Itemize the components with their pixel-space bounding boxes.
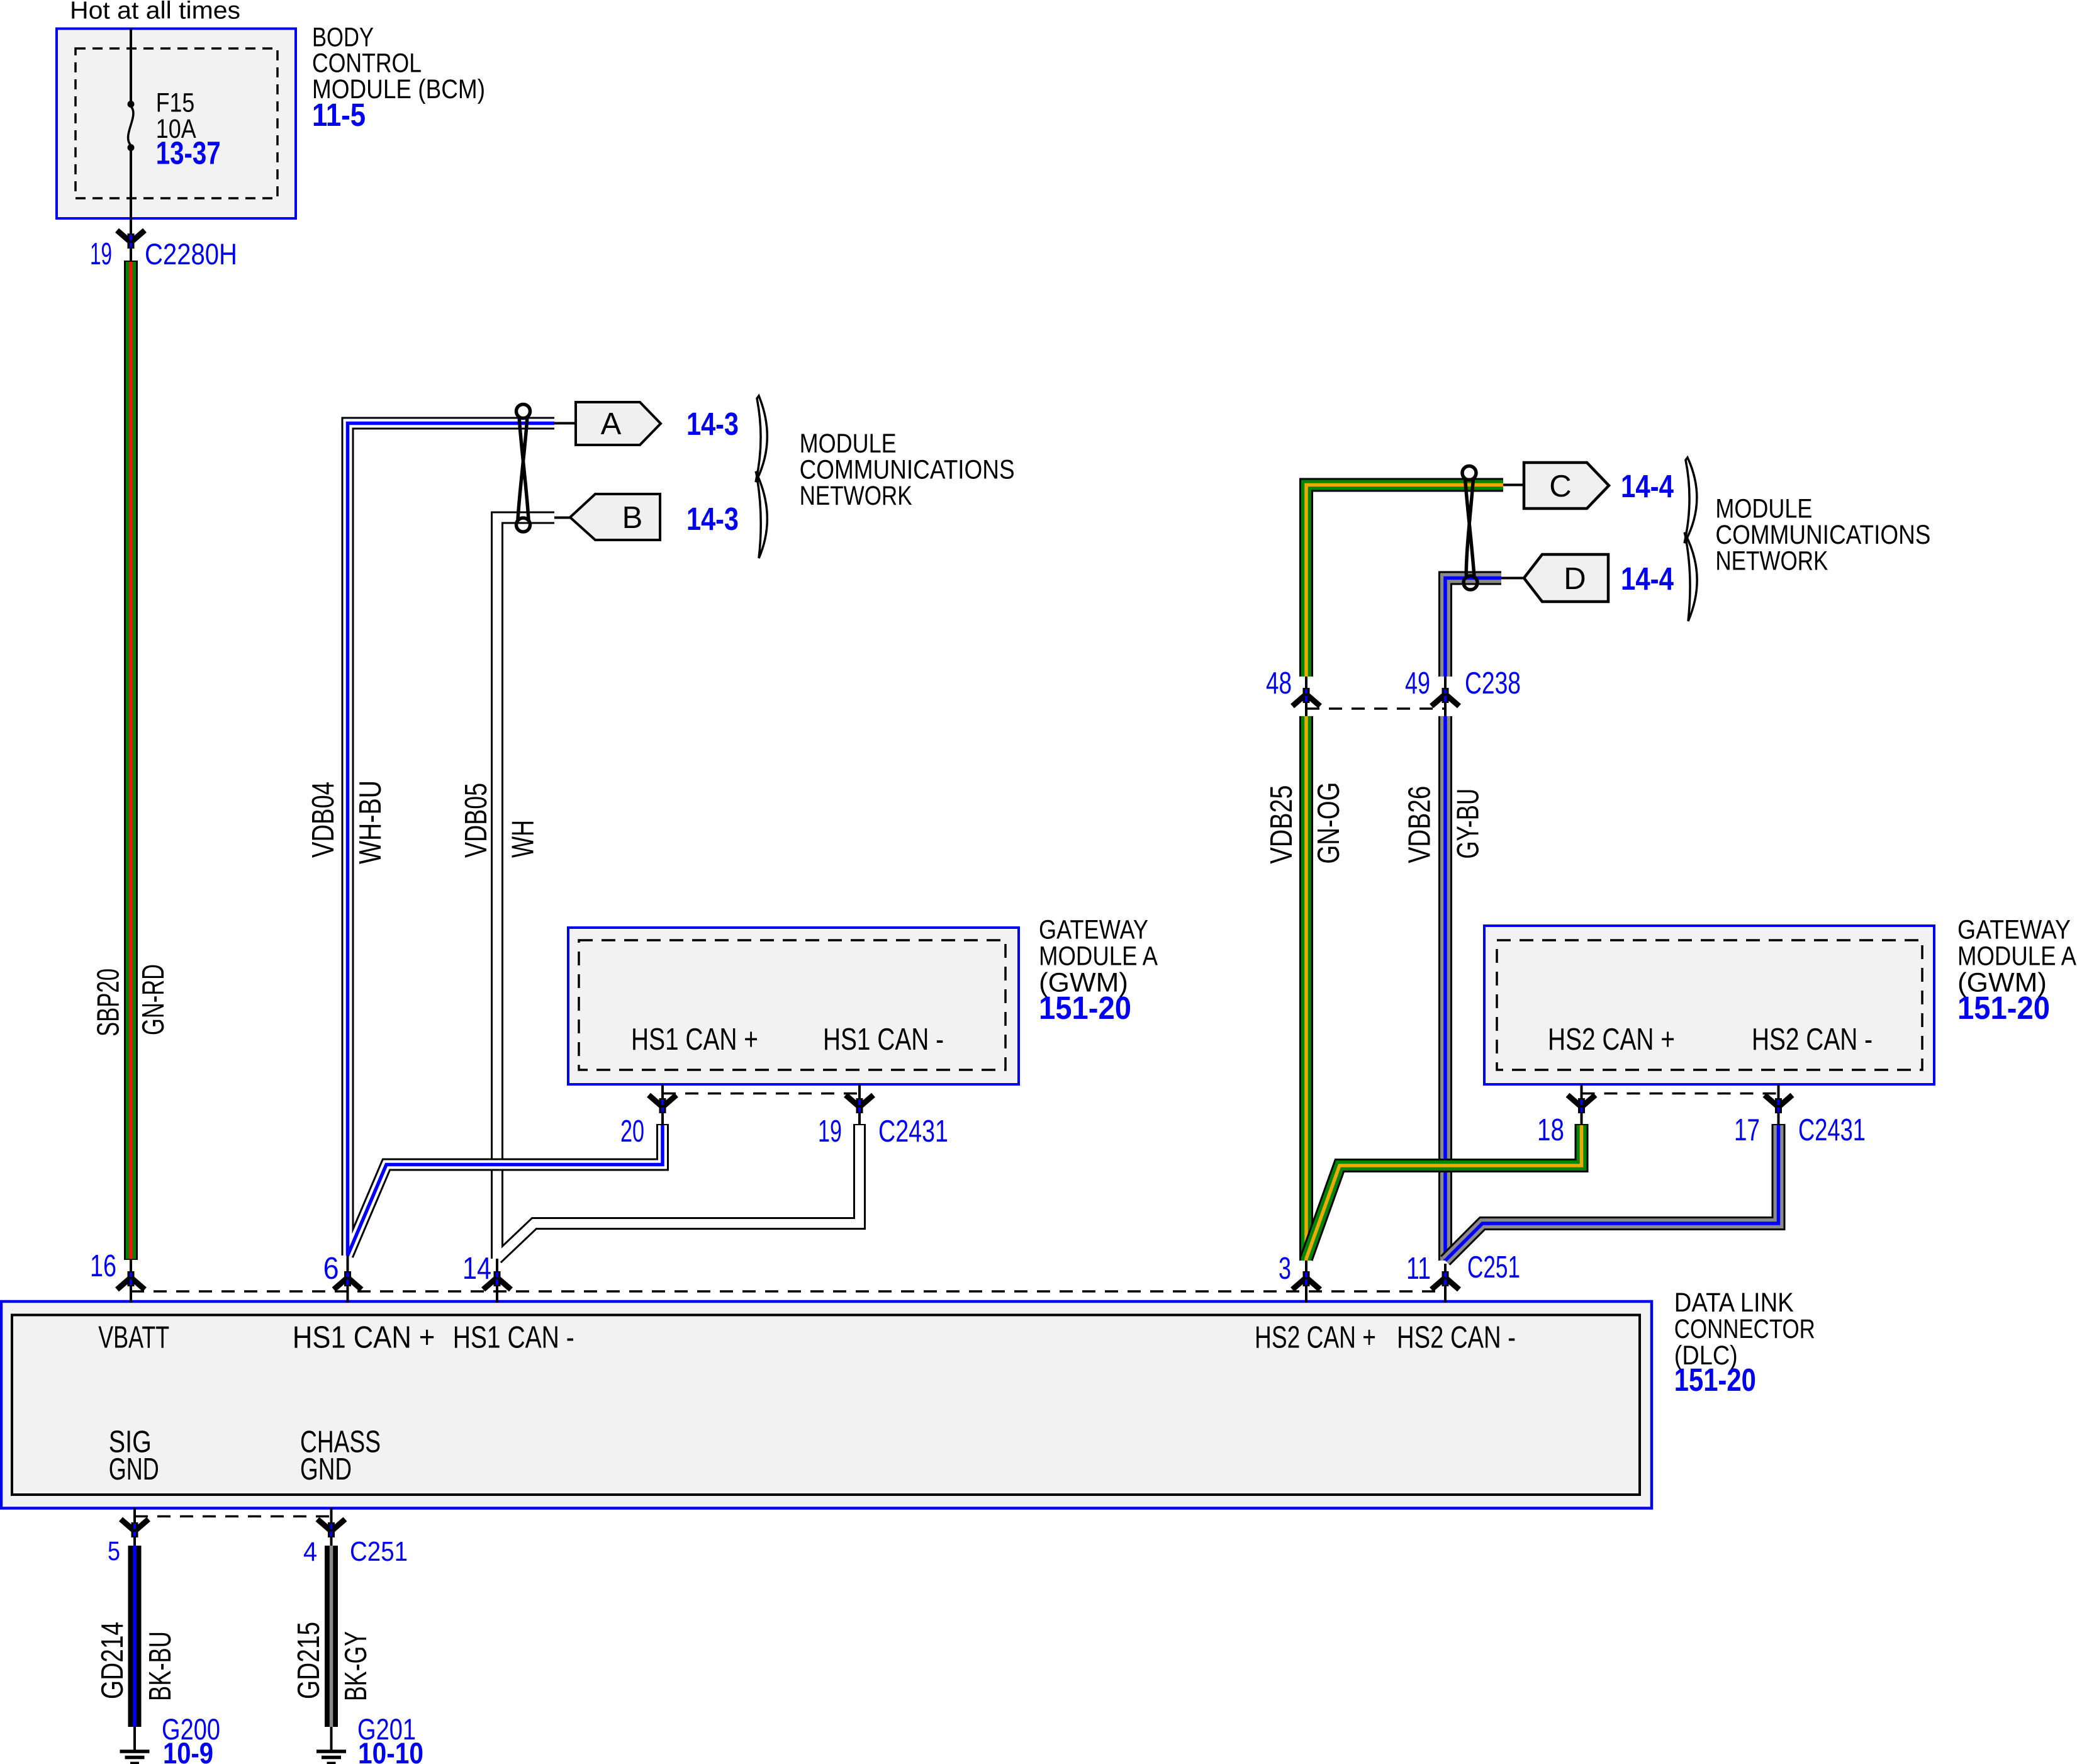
wire lead DLC pin5 bbox=[133, 1508, 136, 1546]
label C238 pins 48 49 bbox=[1266, 666, 1521, 700]
svg-text:WH: WH bbox=[507, 820, 540, 858]
svg-text:13-37: 13-37 bbox=[156, 135, 221, 171]
svg-text:DATA LINK: DATA LINK bbox=[1674, 1288, 1794, 1318]
svg-text:D: D bbox=[1564, 562, 1586, 596]
node D network connector bbox=[1524, 554, 1608, 602]
label DLC name bbox=[1674, 1288, 1815, 1371]
svg-text:19: 19 bbox=[818, 1115, 842, 1149]
dashed link C2431 pins 18-17 bbox=[1582, 1093, 1779, 1095]
svg-text:BK-GY: BK-GY bbox=[339, 1631, 373, 1701]
wire lead G201 ground stem bbox=[330, 1727, 333, 1751]
wire lead fuse feed inside BCM bbox=[130, 29, 132, 102]
wire lead C238 pin49 bbox=[1444, 677, 1447, 716]
node B network connector bbox=[570, 494, 660, 540]
svg-text:4: 4 bbox=[303, 1537, 317, 1567]
label module communications network left bbox=[800, 429, 1015, 511]
svg-text:151-20: 151-20 bbox=[1674, 1362, 1756, 1398]
dashed link C238 pins 48-49 bbox=[1306, 707, 1445, 710]
svg-text:VDB26: VDB26 bbox=[1403, 786, 1437, 863]
svg-text:GATEWAY: GATEWAY bbox=[1039, 915, 1148, 945]
svg-text:GND: GND bbox=[300, 1452, 352, 1486]
connector arrow BCM pin19 C2280H bbox=[117, 230, 145, 249]
wire lead DLC pin6 bbox=[347, 1256, 349, 1303]
wire GD215 BK-GY (DLC pin4 to G201) bbox=[325, 1546, 338, 1727]
svg-text:C2280H: C2280H bbox=[145, 237, 237, 271]
connector arrow C2431 pin17 bbox=[1765, 1095, 1793, 1113]
twisted pair symbol C-D bbox=[1462, 466, 1477, 590]
svg-text:48: 48 bbox=[1266, 666, 1292, 700]
label C2431 pins 20 19 bbox=[620, 1115, 948, 1149]
wire VDB05 WH pair (B connector to DLC pin14 and GWM pin19) bbox=[497, 518, 859, 1259]
svg-text:BK-BU: BK-BU bbox=[143, 1631, 177, 1701]
wire lead DLC pin14 bbox=[496, 1259, 498, 1303]
connector arrow C2431 pin20 bbox=[649, 1095, 676, 1113]
svg-text:11: 11 bbox=[1406, 1252, 1431, 1286]
svg-text:HS1 CAN +: HS1 CAN + bbox=[631, 1023, 758, 1057]
svg-text:SBP20: SBP20 bbox=[92, 969, 126, 1036]
svg-text:F15: F15 bbox=[156, 87, 195, 118]
wire lead DLC pin16 bbox=[130, 1259, 132, 1303]
dashed link C251 pins 5-4 bbox=[135, 1515, 332, 1518]
svg-text:WH-BU: WH-BU bbox=[354, 780, 388, 864]
svg-text:C2431: C2431 bbox=[878, 1115, 948, 1149]
wire lead connector B stub bbox=[554, 517, 570, 519]
wire lead DLC pin4 bbox=[330, 1508, 333, 1546]
svg-text:18: 18 bbox=[1537, 1113, 1564, 1147]
svg-text:VDB04: VDB04 bbox=[306, 782, 340, 858]
module box DLC (DATA LINK CONNECTOR) bbox=[1, 1301, 1652, 1508]
wire SBP20 GN-RD vertical (BCM pin19 to DLC pin16) bbox=[124, 261, 138, 1260]
svg-text:Hot at all times: Hot at all times bbox=[70, 0, 240, 24]
label C2431 pins 18 17 bbox=[1537, 1113, 1866, 1147]
wire lead BCM pin19 bbox=[130, 218, 132, 261]
svg-text:GD215: GD215 bbox=[292, 1622, 326, 1699]
svg-text:NETWORK: NETWORK bbox=[1715, 546, 1828, 576]
connector arrow DLC pin14 bbox=[483, 1271, 511, 1289]
module box GWM A right (HS2) bbox=[1484, 926, 1934, 1084]
wire lead connector C stub bbox=[1503, 484, 1524, 486]
svg-text:HS2 CAN -: HS2 CAN - bbox=[1397, 1321, 1516, 1355]
svg-text:VBATT: VBATT bbox=[98, 1321, 169, 1355]
svg-text:5: 5 bbox=[108, 1536, 120, 1566]
label BCM name bbox=[312, 22, 485, 104]
wire lead GWM pin20 bbox=[661, 1084, 664, 1125]
svg-text:151-20: 151-20 bbox=[1957, 990, 2050, 1026]
svg-text:C251: C251 bbox=[1467, 1250, 1520, 1284]
label pin 19 C2280H bbox=[90, 237, 237, 271]
svg-text:C251: C251 bbox=[350, 1536, 408, 1567]
twisted pair symbol A-B bbox=[517, 405, 530, 532]
wire lead GWM pin17 bbox=[1777, 1084, 1780, 1125]
svg-text:HS2 CAN +: HS2 CAN + bbox=[1548, 1023, 1675, 1057]
svg-text:CONNECTOR: CONNECTOR bbox=[1674, 1314, 1815, 1344]
wire GD214 BK-BU (DLC pin5 to G200) bbox=[128, 1546, 142, 1727]
svg-text:GN-RD: GN-RD bbox=[137, 964, 171, 1035]
connector arrow C238 pin49 bbox=[1431, 688, 1459, 706]
label DLC ports row2 SIG GND / CHASS GND bbox=[109, 1425, 381, 1487]
svg-text:GATEWAY: GATEWAY bbox=[1957, 915, 2071, 945]
svg-text:GD214: GD214 bbox=[96, 1622, 130, 1699]
wire VDB25 GN-OG (C connector to DLC pin3 and GWM pin18) bbox=[1306, 485, 1582, 1261]
svg-text:VDB25: VDB25 bbox=[1265, 785, 1299, 864]
svg-text:C: C bbox=[1549, 469, 1571, 503]
label module communications network right bbox=[1715, 494, 1930, 576]
svg-text:HS1 CAN -: HS1 CAN - bbox=[823, 1023, 944, 1057]
svg-text:14-4: 14-4 bbox=[1621, 468, 1674, 504]
node A network connector bbox=[576, 402, 661, 445]
connector arrow C2431 pin19 bbox=[846, 1095, 873, 1113]
svg-text:19: 19 bbox=[90, 237, 112, 271]
svg-text:14-4: 14-4 bbox=[1621, 561, 1674, 597]
label DLC top pins 16 6 14 3 11 C251 bbox=[90, 1249, 1520, 1286]
svg-text:MODULE A: MODULE A bbox=[1957, 941, 2076, 972]
connector arrow DLC pin11 bbox=[1431, 1271, 1459, 1289]
svg-text:20: 20 bbox=[620, 1115, 644, 1149]
connector arrow C251 pin5 bbox=[121, 1519, 148, 1537]
module box GWM A left (HS1) bbox=[568, 928, 1019, 1084]
svg-text:NETWORK: NETWORK bbox=[800, 481, 912, 511]
dashed link C2431 pins 20-19 bbox=[663, 1093, 859, 1095]
label GWM left name bbox=[1039, 915, 1158, 998]
wire lead connector A stub bbox=[554, 422, 576, 425]
svg-text:HS1 CAN +: HS1 CAN + bbox=[293, 1321, 435, 1355]
wire lead G200 ground stem bbox=[133, 1727, 136, 1751]
svg-text:16: 16 bbox=[90, 1249, 116, 1283]
svg-text:B: B bbox=[622, 501, 643, 535]
dashed link DLC top pins 16-6-14-3-11 bbox=[131, 1290, 1445, 1293]
svg-text:HS2 CAN +: HS2 CAN + bbox=[1255, 1321, 1376, 1355]
svg-text:10-10: 10-10 bbox=[358, 1736, 423, 1764]
svg-text:GND: GND bbox=[109, 1452, 159, 1486]
svg-text:3: 3 bbox=[1279, 1252, 1291, 1286]
connector arrow C238 pin48 bbox=[1292, 688, 1320, 706]
svg-text:17: 17 bbox=[1734, 1113, 1760, 1147]
svg-text:14: 14 bbox=[462, 1252, 491, 1286]
connector arrow C251 pin4 bbox=[318, 1519, 345, 1537]
label C251 pins 5 4 bbox=[108, 1536, 408, 1567]
svg-text:10-9: 10-9 bbox=[163, 1736, 213, 1764]
wire VDB04 WH-BU pair (A connector to DLC pin6 and GWM pin20) bbox=[348, 424, 663, 1256]
node C network connector bbox=[1524, 463, 1609, 508]
connector arrow DLC pin3 bbox=[1292, 1271, 1320, 1289]
brace left module communications network bbox=[756, 396, 767, 558]
connector arrow DLC pin16 bbox=[117, 1271, 145, 1289]
svg-text:11-5: 11-5 bbox=[312, 97, 366, 133]
svg-text:C2431: C2431 bbox=[1798, 1113, 1866, 1147]
ground G200 bbox=[120, 1751, 150, 1763]
connector arrow DLC pin6 bbox=[334, 1271, 362, 1289]
svg-text:MODULE A: MODULE A bbox=[1039, 941, 1158, 972]
fuse F15 symbol bbox=[128, 101, 135, 151]
svg-text:A: A bbox=[601, 407, 622, 441]
wire lead DLC pin3 bbox=[1305, 1261, 1307, 1303]
wire lead GWM pin18 bbox=[1581, 1084, 1583, 1125]
connector arrow C2431 pin18 bbox=[1568, 1095, 1596, 1113]
svg-text:GN-OG: GN-OG bbox=[1312, 782, 1346, 864]
svg-text:14-3: 14-3 bbox=[686, 501, 739, 537]
wire lead DLC pin11 bbox=[1444, 1264, 1447, 1303]
svg-text:C238: C238 bbox=[1465, 666, 1521, 700]
svg-text:151-20: 151-20 bbox=[1039, 990, 1131, 1026]
label GWM right name bbox=[1957, 915, 2076, 998]
svg-text:HS1 CAN -: HS1 CAN - bbox=[453, 1321, 574, 1355]
label DLC ports row1 bbox=[98, 1321, 1516, 1355]
svg-text:14-3: 14-3 bbox=[686, 406, 739, 442]
svg-text:VDB05: VDB05 bbox=[459, 783, 493, 858]
wire VDB26 GY-BU (D connector to DLC pin11 and GWM pin17) bbox=[1445, 578, 1779, 1261]
wire lead connector D stub bbox=[1501, 577, 1524, 580]
svg-text:49: 49 bbox=[1405, 666, 1430, 700]
module box BCM (BODY CONTROL MODULE) bbox=[57, 29, 296, 219]
svg-text:6: 6 bbox=[323, 1252, 339, 1286]
ground G201 bbox=[316, 1751, 346, 1763]
brace right module communications network bbox=[1684, 458, 1697, 621]
svg-text:GY-BU: GY-BU bbox=[1452, 789, 1486, 859]
wire lead C238 pin48 bbox=[1305, 677, 1307, 716]
wire lead GWM pin19 bbox=[858, 1084, 861, 1125]
svg-text:HS2 CAN -: HS2 CAN - bbox=[1752, 1023, 1873, 1057]
